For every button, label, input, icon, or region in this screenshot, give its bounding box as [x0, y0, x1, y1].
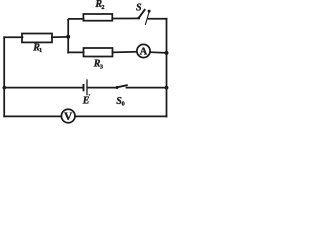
node dot A-branch: [66, 35, 70, 39]
wire right vertical: [166, 19, 168, 117]
resistor R1: [22, 34, 52, 43]
ammeter A: [137, 44, 150, 57]
wire bottom right segment: [75, 115, 166, 117]
resistor R3: [84, 48, 113, 57]
switch S fixed contact: [145, 11, 149, 24]
node junction vertical: [67, 20, 69, 53]
switch S0 pivot dot: [116, 86, 119, 89]
wire R1 row left segment: [4, 36, 22, 38]
node dot right A-junction: [165, 51, 169, 55]
svg-text:A: A: [140, 47, 148, 58]
wire battery to S0: [88, 87, 117, 89]
switch S blade: [139, 10, 145, 18]
svg-text:E: E: [82, 96, 90, 107]
svg-text:2: 2: [101, 4, 104, 11]
svg-text:V: V: [64, 111, 73, 123]
svg-text:3: 3: [100, 64, 103, 71]
wire top branch to R2: [68, 18, 83, 21]
wire switch to right corner: [149, 18, 167, 20]
svg-text:1: 1: [39, 47, 42, 54]
wire bottom branch to R3: [68, 51, 83, 53]
battery E short plate: [83, 85, 85, 90]
scan speck above E: [89, 94, 91, 96]
wire R1 to junction: [52, 36, 68, 38]
wire left vertical: [3, 37, 5, 116]
svg-text:0: 0: [122, 100, 125, 107]
wire R2 to switch: [112, 17, 139, 19]
wire S0 to right wire: [127, 87, 167, 89]
switch S pivot dot: [137, 17, 140, 20]
switch S0 blade: [117, 85, 127, 87]
wire battery row left: [4, 87, 83, 89]
wire ammeter to right wire: [150, 51, 166, 54]
node dot right battery-row: [165, 86, 169, 90]
wire bottom left segment: [4, 115, 61, 117]
node dot left battery-row: [3, 86, 7, 90]
resistor R2: [83, 14, 112, 21]
svg-text:S: S: [136, 3, 142, 14]
battery E long plate: [86, 80, 88, 95]
voltmeter V: [61, 109, 75, 123]
wire R3 to ammeter: [113, 51, 137, 54]
